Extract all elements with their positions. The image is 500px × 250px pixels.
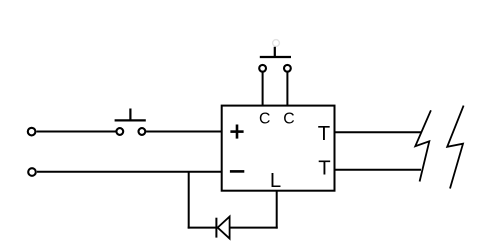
terminal J1 (top left open circle): [28, 128, 36, 136]
wire box T to load (top right): [335, 131, 422, 133]
diode D1 (cathode bar left, triangle pointing left): [216, 217, 229, 239]
wire junction drop to diode loop: [188, 172, 190, 229]
wire S2 right pin down to box C: [286, 72, 288, 106]
svg-text:T: T: [318, 123, 330, 145]
break mark lightning bolt 1: [415, 110, 431, 181]
wire riser up to L terminal on box bottom: [276, 191, 278, 229]
svg-text:T: T: [318, 158, 330, 180]
wire box T to load (bottom right): [335, 169, 422, 171]
break mark lightning bolt 2: [447, 106, 463, 189]
label - (minus input): [230, 170, 244, 173]
terminal J2 (bottom left open circle): [28, 168, 36, 176]
wire diode anode to L riser: [230, 227, 278, 229]
label + (plus input): [230, 125, 243, 139]
pushbutton S1 (normally-open, left): [115, 109, 146, 135]
wire J2 to box - input: [37, 171, 222, 173]
wire to diode cathode: [188, 227, 216, 229]
svg-text:C: C: [283, 111, 294, 128]
wire J1 to pushbutton S1: [37, 131, 116, 133]
wire S2 left pin down to box C: [262, 72, 264, 106]
svg-text:L: L: [270, 170, 281, 192]
svg-text:C: C: [259, 111, 270, 128]
controller box U1: [222, 106, 335, 191]
wire S1 to box + input: [146, 131, 222, 133]
pushbutton S2 (normally-open, top): [259, 47, 291, 72]
scan ghost artifact above S2 stem: [273, 40, 280, 47]
